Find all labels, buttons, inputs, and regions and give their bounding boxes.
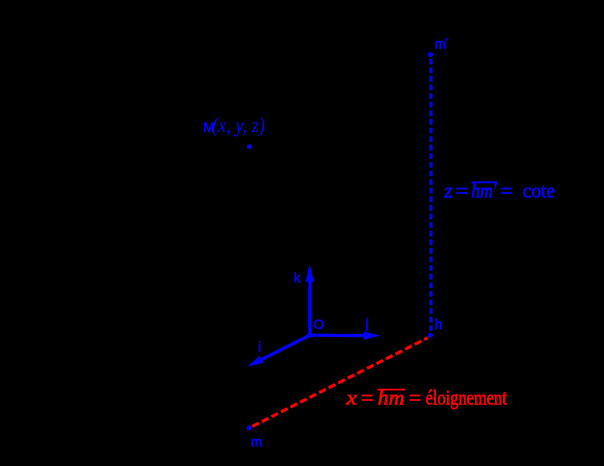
svg-text:x: x xyxy=(345,386,357,410)
svg-text:=: = xyxy=(500,178,512,202)
svg-text:cote: cote xyxy=(523,178,555,202)
svg-text:=: = xyxy=(409,386,422,410)
svg-text:(x, y, z): (x, y, z) xyxy=(212,113,265,137)
svg-text:O: O xyxy=(314,317,325,332)
svg-text:i: i xyxy=(258,339,261,354)
svg-text:=: = xyxy=(361,386,373,410)
svg-text:z: z xyxy=(443,178,452,202)
svg-text:m: m xyxy=(251,434,262,449)
svg-text:m: m xyxy=(435,37,446,52)
svg-text:k: k xyxy=(294,271,301,286)
svg-text:=: = xyxy=(456,178,468,202)
svg-text:éloignement: éloignement xyxy=(426,386,507,410)
svg-text:h: h xyxy=(435,317,443,332)
svg-text:j: j xyxy=(365,316,369,331)
